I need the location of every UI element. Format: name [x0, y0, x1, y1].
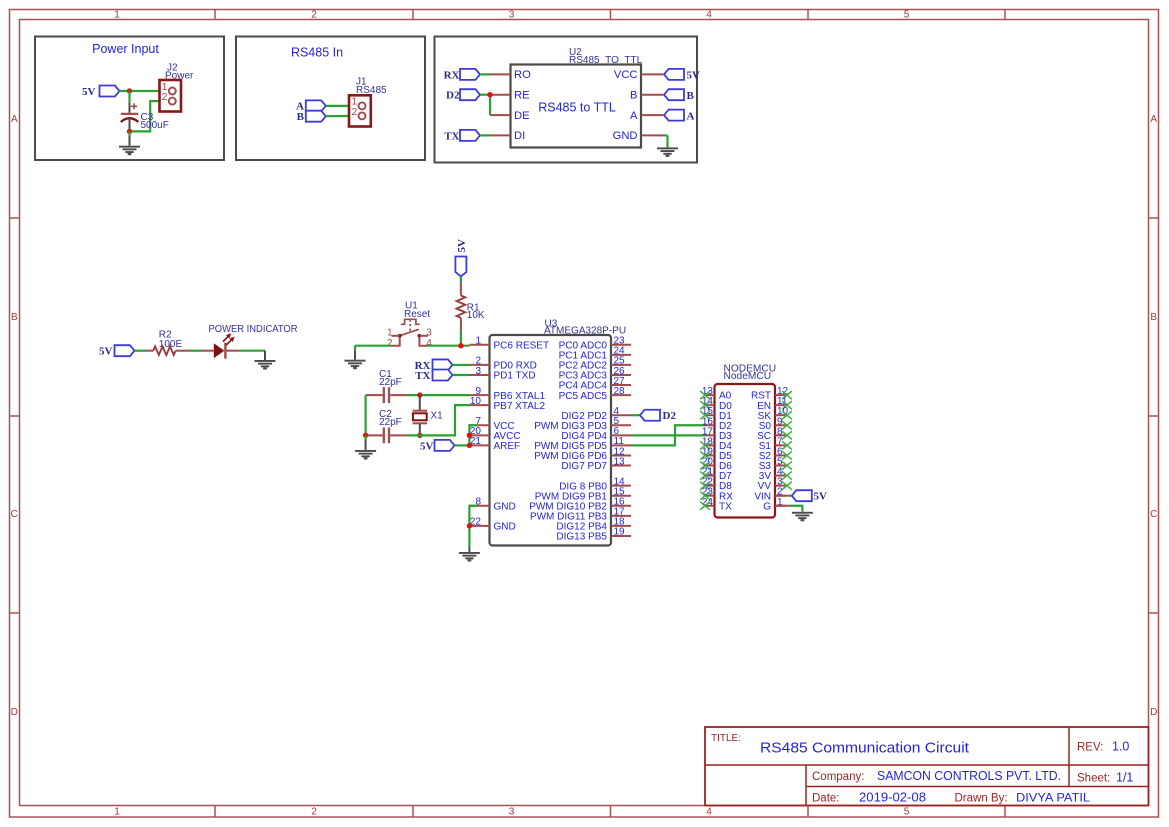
svg-text:PC6 RESET: PC6 RESET — [494, 341, 550, 352]
connector J1 labels — [356, 77, 387, 96]
svg-text:1: 1 — [387, 327, 393, 338]
svg-text:5V: 5V — [814, 491, 828, 503]
junction at C2 left node — [363, 433, 368, 438]
NodeMCU pin 6 S2 — [759, 446, 786, 462]
svg-text:Drawn By:: Drawn By: — [955, 793, 1008, 805]
NodeMCU pin 4 3V — [759, 467, 786, 483]
svg-text:Date:: Date: — [812, 793, 840, 805]
ground symbol (U2) — [657, 147, 678, 157]
svg-text:1.0: 1.0 — [1112, 740, 1129, 754]
no-connect mark NodeMCU pin 23 — [700, 492, 710, 500]
svg-text:GND: GND — [494, 522, 516, 533]
capacitor C1 labels — [379, 369, 402, 388]
U3 pin 22 GND — [470, 517, 516, 533]
wire R2 to LED — [189, 350, 202, 352]
no-connect mark NodeMCU pin 24 — [700, 502, 710, 510]
NodeMCU pin 8 SC — [757, 426, 785, 442]
resistor R2 100E — [146, 346, 190, 355]
svg-text:4: 4 — [706, 10, 712, 21]
no-connect mark NodeMCU pin 13 — [700, 391, 710, 399]
U3 pin 21 AREF — [470, 436, 521, 452]
U3 pin 14 DIG 8 PB0 — [559, 476, 631, 492]
no-connect mark NodeMCU pin 11 — [782, 401, 792, 409]
module U2 left pins RO RE DE DI — [490, 69, 531, 142]
connector J1 body — [349, 95, 371, 126]
U3 pin 23 PC0 ADC0 — [559, 336, 631, 352]
svg-text:PD1 TXD: PD1 TXD — [494, 371, 536, 382]
title block REV label and value — [1077, 740, 1129, 754]
NodeMCU pin 19 D5 — [702, 446, 732, 462]
wire U2 GND to ground — [663, 134, 668, 136]
RS485 In section box — [236, 37, 425, 161]
svg-text:DE: DE — [514, 110, 530, 122]
svg-text:TX: TX — [719, 501, 732, 512]
wire reset net left segment to ground — [355, 345, 392, 347]
svg-text:Company:: Company: — [812, 771, 864, 783]
svg-text:PB7 XTAL2: PB7 XTAL2 — [494, 401, 546, 412]
U3 pin 8 GND — [470, 497, 516, 513]
wire U3 pin 6 to NodeMCU D3 — [631, 434, 705, 436]
U3 pin 7 VCC — [470, 416, 515, 432]
NodeMCU pin 24 TX — [702, 497, 732, 513]
capacitor C1 22pF — [366, 387, 407, 403]
wire LED to ground — [240, 350, 265, 352]
no-connect mark NodeMCU pin 7 — [782, 441, 792, 449]
svg-text:B: B — [297, 111, 305, 123]
junction at R1/reset node — [458, 343, 463, 348]
net flag TX (U2) — [444, 130, 480, 143]
svg-text:DI: DI — [514, 130, 525, 142]
NodeMCU pin 14 D0 — [702, 396, 732, 412]
supply flag 5V (power indicator) — [99, 345, 134, 357]
resistor R2 labels — [159, 330, 183, 350]
svg-text:Reset: Reset — [404, 309, 430, 320]
U3 pin 10 PB7 XTAL2 — [470, 396, 546, 412]
connector J1 pin 1 — [351, 96, 365, 110]
supply flag 5V (U3 power) — [420, 440, 454, 452]
no-connect mark NodeMCU pin 5 — [782, 461, 792, 469]
capacitor C3 bottom pin — [129, 118, 131, 131]
svg-text:10K: 10K — [467, 310, 485, 321]
U3 pin 26 PC3 ADC3 — [559, 366, 631, 382]
svg-text:2019-02-08: 2019-02-08 — [859, 791, 926, 805]
wire RX to U3 pin 2 — [453, 364, 470, 366]
svg-text:5V: 5V — [687, 70, 701, 82]
frame row labels A-D right — [1150, 114, 1157, 718]
svg-text:3: 3 — [426, 327, 432, 338]
no-connect mark NodeMCU pin 8 — [782, 431, 792, 439]
svg-text:B: B — [1150, 312, 1157, 323]
svg-text:TITLE:: TITLE: — [711, 733, 741, 744]
wire B to J1 pin 2 — [326, 115, 355, 117]
svg-text:NodeMCU: NodeMCU — [724, 371, 772, 382]
IC U3 name labels — [544, 318, 626, 336]
wire TX to DI — [480, 134, 491, 136]
NodeMCU pin 10 SK — [758, 406, 789, 422]
svg-text:4: 4 — [706, 807, 712, 818]
wire C3 node to ground — [128, 131, 130, 136]
svg-text:D: D — [11, 707, 18, 718]
module NODEMCU body — [715, 384, 776, 518]
svg-text:2: 2 — [351, 106, 357, 118]
wire R1 to reset net — [460, 331, 462, 346]
wire A to J1 pin 1 — [326, 105, 355, 107]
connector J1 pin 2 — [351, 106, 365, 120]
svg-text:RO: RO — [514, 69, 531, 81]
svg-text:GND: GND — [494, 501, 516, 512]
svg-text:2: 2 — [162, 91, 168, 103]
net flag D2 (U2) — [446, 89, 480, 102]
junction at 5V/C3 node — [127, 88, 132, 93]
svg-text:22pF: 22pF — [379, 377, 402, 388]
U3 pin 19 DIG13 PB5 — [556, 527, 631, 543]
U3 pin 15 PWM DIG9 PB1 — [535, 487, 631, 503]
svg-text:500uF: 500uF — [141, 120, 169, 131]
Power Input section box — [35, 37, 224, 161]
NodeMCU pin 20 D6 — [702, 457, 732, 473]
connector J2 pin 1 — [162, 81, 176, 95]
svg-text:AREF: AREF — [494, 441, 521, 452]
wire 5V to AREF/AVCC/VCC — [455, 444, 470, 446]
frame column labels 1-5 bottom — [114, 807, 910, 818]
svg-text:RX: RX — [444, 69, 460, 81]
svg-text:B: B — [11, 312, 18, 323]
frame top/bottom column ticks — [215, 10, 1005, 817]
NodeMCU pin 16 D2 — [702, 416, 732, 432]
title block Date row — [812, 791, 1090, 805]
svg-text:DIVYA PATIL: DIVYA PATIL — [1016, 791, 1090, 805]
NodeMCU pin 5 S3 — [759, 457, 786, 473]
net flag D2 (U3 pin 4) — [631, 410, 676, 422]
wire C2 node to ground — [365, 435, 367, 439]
svg-text:22pF: 22pF — [379, 417, 402, 428]
wire NodeMCU G to ground — [775, 505, 790, 507]
svg-text:PC5 ADC5: PC5 ADC5 — [559, 391, 608, 402]
no-connect mark NodeMCU pin 22 — [700, 482, 710, 490]
svg-text:D2: D2 — [446, 90, 460, 102]
frame column labels 1-5 top — [114, 10, 910, 21]
svg-text:5V: 5V — [420, 440, 434, 452]
U3 pin 9 PB6 XTAL1 — [470, 386, 546, 402]
svg-text:B: B — [687, 90, 695, 102]
no-connect mark NodeMCU pin 4 — [782, 471, 792, 479]
ground symbol (NodeMCU) — [792, 512, 813, 522]
svg-text:A: A — [1150, 114, 1157, 125]
svg-text:13: 13 — [614, 456, 626, 467]
resistor R1 labels — [467, 302, 485, 321]
svg-text:DIG7 PD7: DIG7 PD7 — [561, 461, 607, 472]
frame row labels A-D left — [11, 114, 18, 718]
svg-text:1: 1 — [114, 10, 120, 21]
svg-text:10: 10 — [470, 396, 482, 407]
wire C3 bottom to J2 pin 2 — [130, 101, 166, 131]
svg-text:A: A — [687, 110, 695, 122]
svg-text:X1: X1 — [431, 410, 444, 421]
U3 pin 16 PWM DIG10 PB2 — [529, 497, 631, 513]
U3 pin 18 DIG12 PB4 — [556, 517, 631, 533]
U3 pin 2 PD0 RXD — [470, 356, 537, 372]
no-connect mark NodeMCU pin 19 — [700, 451, 710, 459]
supply flag 5V at U2 VCC — [664, 69, 700, 82]
junction at XTAL1/crystal node — [417, 392, 422, 397]
no-connect mark NodeMCU pin 15 — [700, 411, 710, 419]
svg-text:RS485 In: RS485 In — [291, 46, 343, 60]
U3 pin 4 DIG2 PD2 — [561, 406, 631, 422]
svg-text:2: 2 — [387, 338, 393, 349]
no-connect mark NodeMCU pin 20 — [700, 461, 710, 469]
NodeMCU pin 23 RX — [702, 487, 733, 503]
title block Company row — [812, 769, 1061, 783]
svg-text:2: 2 — [311, 10, 317, 21]
svg-text:RE: RE — [514, 90, 530, 102]
NodeMCU pin 3 VV — [758, 477, 786, 493]
U3 pin 1 PC6 RESET — [470, 336, 550, 352]
svg-text:D2: D2 — [663, 410, 677, 422]
svg-text:G: G — [763, 501, 771, 512]
connector J2 body — [160, 80, 182, 112]
svg-text:TX: TX — [415, 370, 430, 382]
supply flag 5V at NodeMCU VIN — [775, 490, 827, 502]
capacitor C3 straight plate — [121, 113, 139, 115]
wire 5V to R2 — [135, 350, 147, 352]
junction at AREF node — [467, 443, 472, 448]
pushbutton U1 Reset — [387, 319, 432, 349]
svg-text:GND: GND — [613, 130, 638, 142]
svg-text:1: 1 — [114, 807, 120, 818]
no-connect mark NodeMCU pin 21 — [700, 471, 710, 479]
net flag TX (U3 TXD) — [415, 369, 452, 381]
svg-text:5V: 5V — [99, 346, 113, 358]
svg-text:A: A — [11, 114, 18, 125]
svg-text:3: 3 — [509, 807, 515, 818]
title block Sheet label and value — [1077, 771, 1133, 785]
U3 pin 20 AVCC — [470, 426, 521, 442]
resistor R1 10K — [457, 283, 466, 331]
U3 pin 6 DIG4 PD4 — [561, 426, 631, 442]
NodeMCU pin 9 S0 — [759, 416, 786, 432]
NodeMCU pin 13 A0 — [702, 386, 732, 402]
wire U3 GND pins to ground — [469, 506, 478, 547]
svg-text:POWER INDICATOR: POWER INDICATOR — [209, 324, 298, 335]
crystal X1 — [413, 395, 427, 435]
NodeMCU pin 12 RST — [751, 386, 789, 402]
NodeMCU pin 11 EN — [757, 396, 788, 412]
wire TX to U3 pin 3 — [453, 374, 470, 376]
no-connect mark NodeMCU pin 18 — [700, 441, 710, 449]
title block outer box — [705, 727, 1149, 806]
U3 pin 28 PC5 ADC5 — [559, 386, 631, 402]
junction at RE/DE node — [487, 92, 492, 97]
svg-text:TX: TX — [444, 130, 459, 142]
junction at C3 bottom node — [127, 129, 132, 134]
wire RX to RO — [480, 73, 491, 75]
ground symbol (power input) — [119, 146, 140, 156]
U3 pin 17 PWM DIG11 PB3 — [530, 507, 631, 523]
title block dividers — [705, 727, 1149, 806]
svg-text:5V: 5V — [82, 86, 96, 98]
svg-text:3: 3 — [509, 10, 515, 21]
U3 pin 27 PC4 ADC4 — [559, 376, 631, 392]
NodeMCU pin 2 VIN — [754, 487, 785, 503]
supply flag 5V (power input) — [82, 86, 119, 98]
connector J2 labels — [165, 62, 194, 81]
switch U1 labels — [404, 301, 430, 320]
svg-text:2: 2 — [311, 807, 317, 818]
capacitor C3 plus sign — [131, 105, 137, 107]
junction at crystal bottom node — [417, 433, 422, 438]
IC U3 ATMEGA328P-PU body — [490, 335, 612, 546]
svg-text:REV:: REV: — [1077, 742, 1103, 754]
capacitor C3 name/value labels — [141, 112, 169, 131]
wire C1 to U3 pin 9 (XTAL1) — [407, 394, 470, 396]
no-connect mark NodeMCU pin 6 — [782, 451, 792, 459]
svg-text:VCC: VCC — [614, 69, 638, 81]
svg-text:RS485 to TTL: RS485 to TTL — [538, 101, 616, 115]
NodeMCU pin 7 S1 — [759, 436, 786, 452]
net flag RX (U2) — [444, 69, 480, 82]
svg-text:B: B — [630, 90, 637, 102]
ground symbol (power indicator) — [255, 360, 276, 370]
LED D1 power indicator — [202, 333, 240, 359]
capacitor C2 labels — [379, 409, 402, 428]
module NODEMCU labels — [724, 363, 777, 382]
svg-text:C: C — [11, 509, 18, 520]
U3 pin 13 DIG7 PD7 — [561, 456, 631, 472]
wire 5V flag to R1 — [460, 277, 462, 284]
connector J2 pin 2 — [162, 91, 176, 105]
svg-text:DIG13 PB5: DIG13 PB5 — [556, 532, 607, 543]
no-connect mark NodeMCU pin 10 — [782, 411, 792, 419]
net flag RX (U3 RXD) — [415, 359, 453, 371]
no-connect mark NodeMCU pin 14 — [700, 401, 710, 409]
svg-text:SAMCON CONTROLS PVT. LTD.: SAMCON CONTROLS PVT. LTD. — [877, 769, 1061, 783]
wire 5V to J2 pin 1 — [120, 90, 166, 92]
no-connect mark NodeMCU pin 3 — [782, 482, 792, 490]
wire reset net right segment to U3 pin 1 — [428, 345, 470, 347]
U3 pin 25 PC2 ADC2 — [559, 356, 631, 372]
svg-text:1/1: 1/1 — [1116, 771, 1133, 785]
net flag B at U2 — [664, 89, 695, 102]
svg-text:28: 28 — [614, 386, 626, 397]
wire U3 pin 11 to NodeMCU D2 — [631, 425, 705, 445]
svg-text:C: C — [1150, 509, 1157, 520]
frame left/right row ticks — [10, 218, 1159, 613]
NodeMCU pin 1 G — [763, 497, 785, 513]
NodeMCU pin 18 D4 — [702, 436, 732, 452]
U3 pin 3 PD1 TXD — [470, 366, 536, 382]
RS485 to TTL section box — [435, 37, 698, 163]
ground symbol (reset switch) — [345, 360, 366, 370]
svg-text:5: 5 — [904, 807, 910, 818]
capacitor C2 22pF — [366, 427, 407, 443]
svg-text:19: 19 — [614, 527, 626, 538]
net flag A — [296, 100, 326, 112]
capacitor C3 top pin (wire down from junction) — [128, 91, 130, 103]
wire D2 to RE and DE — [480, 94, 490, 96]
U3 pin 11 PWM DIG5 PD5 — [534, 436, 631, 452]
svg-text:5: 5 — [904, 10, 910, 21]
NodeMCU pin 15 D1 — [702, 406, 732, 422]
wire crystal bottom to U3 pin 10 (XTAL2) — [407, 405, 470, 435]
NodeMCU pin 17 D3 — [702, 426, 732, 442]
no-connect mark NodeMCU pin 12 — [782, 391, 792, 399]
NodeMCU pin 21 D7 — [702, 467, 732, 483]
net flag B — [297, 111, 326, 123]
svg-text:5V: 5V — [456, 239, 468, 253]
no-connect mark NodeMCU pin 9 — [782, 421, 792, 429]
svg-text:3: 3 — [475, 366, 481, 377]
supply flag 5V (reset pull-up) — [455, 239, 468, 277]
module U2 right pins VCC B A GND — [613, 69, 663, 142]
junction at GND pin 22 node — [467, 523, 472, 528]
ground symbol (U3) — [459, 552, 480, 562]
svg-text:4: 4 — [426, 338, 432, 349]
net flag A at U2 — [664, 110, 695, 123]
capacitor C3 curved plate — [121, 118, 139, 122]
svg-text:A: A — [630, 110, 638, 122]
svg-text:Power Input: Power Input — [92, 42, 159, 56]
svg-text:RS485 Communication Circuit: RS485 Communication Circuit — [760, 741, 969, 757]
U3 pin 12 PWM DIG6 PD6 — [534, 446, 631, 462]
NodeMCU pin 22 D8 — [702, 477, 732, 493]
module U2 body — [511, 65, 642, 148]
svg-text:Sheet:: Sheet: — [1077, 773, 1110, 785]
svg-text:1: 1 — [475, 336, 481, 347]
U3 pin 5 PWM DIG3 PD3 — [534, 416, 631, 432]
module U2 name labels — [569, 47, 643, 66]
ground symbol (crystal) — [355, 450, 376, 460]
svg-text:D: D — [1150, 707, 1157, 718]
junction at AVCC node — [467, 433, 472, 438]
wire C1/C2 left vertical — [365, 395, 367, 435]
U3 pin 24 PC1 ADC1 — [559, 346, 631, 362]
